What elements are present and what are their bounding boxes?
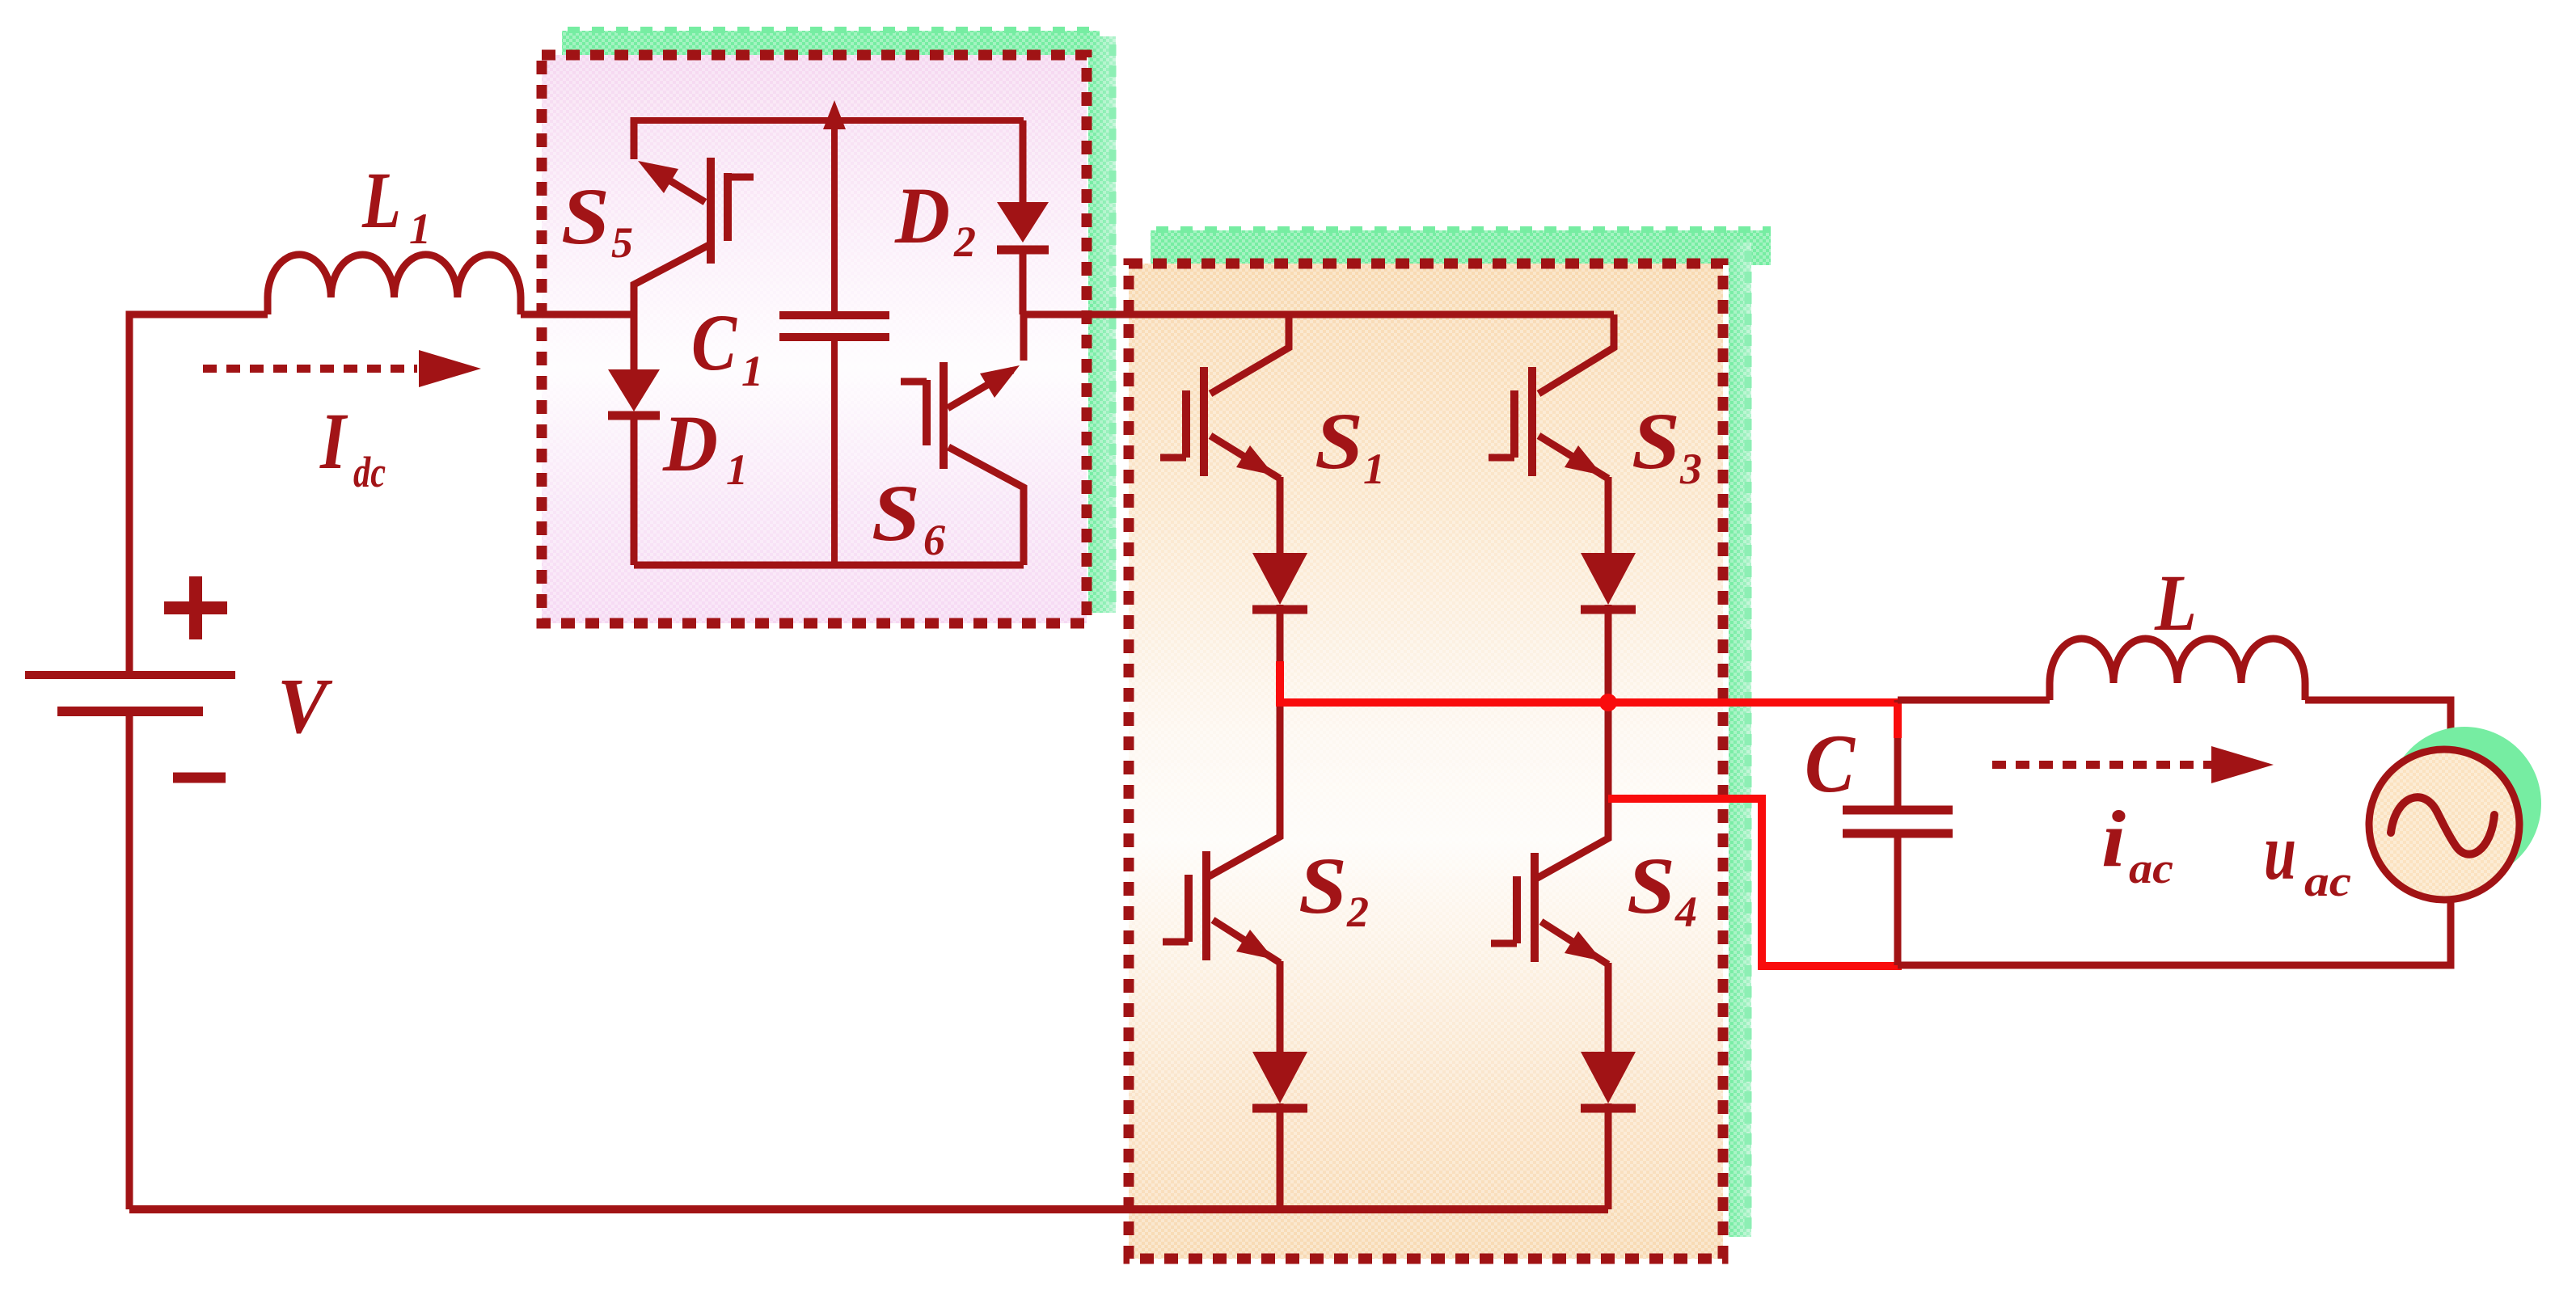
svg-text:I: I xyxy=(319,396,348,486)
svg-text:ac: ac xyxy=(2129,844,2173,892)
wire: pink box output to bridge top rail xyxy=(1024,311,1614,319)
svg-text:D: D xyxy=(662,399,718,488)
battery V plate short xyxy=(57,707,203,716)
svg-text:2: 2 xyxy=(1346,888,1369,936)
green band right of orange box xyxy=(1729,243,1751,1237)
svg-text:1: 1 xyxy=(726,445,748,494)
battery V plate long xyxy=(25,671,235,679)
svg-text:u: u xyxy=(2264,807,2296,897)
svg-text:C: C xyxy=(691,297,737,387)
diode below S4 xyxy=(1581,1052,1636,1209)
diode below S3 xyxy=(1581,553,1636,702)
transistor S3 xyxy=(1489,314,1614,553)
svg-text:V: V xyxy=(277,663,333,749)
svg-text:S: S xyxy=(872,468,920,558)
svg-text:D: D xyxy=(894,171,950,260)
diode below S1 xyxy=(1252,553,1307,663)
wire: battery negative down to bottom rail xyxy=(126,716,133,1209)
inductor L xyxy=(2050,639,2305,700)
diode D1 xyxy=(608,314,660,565)
svg-text:1: 1 xyxy=(409,205,431,253)
transistor S2 xyxy=(1163,706,1280,1052)
svg-text:L: L xyxy=(2154,558,2197,648)
svg-text:1: 1 xyxy=(741,347,763,395)
current arrow iac xyxy=(1992,761,2211,769)
green band above orange box xyxy=(1151,230,1771,265)
svg-text:S: S xyxy=(1299,841,1347,930)
svg-text:2: 2 xyxy=(953,217,976,266)
green band right of pink box xyxy=(1088,36,1116,613)
transistor S6 xyxy=(901,314,1024,565)
svg-text:S: S xyxy=(1632,396,1680,486)
svg-text:4: 4 xyxy=(1674,888,1697,936)
current arrow Idc xyxy=(203,365,417,373)
svg-text:L: L xyxy=(361,155,401,245)
AC source green shadow xyxy=(2388,727,2541,880)
capacitor C1 xyxy=(779,315,889,337)
svg-text:S: S xyxy=(1315,396,1363,486)
svg-text:1: 1 xyxy=(1363,445,1385,493)
wire: L to AC source xyxy=(2305,700,2451,749)
svg-text:C: C xyxy=(1805,718,1856,810)
pink box top rail xyxy=(634,117,1024,124)
wire: capacitor to inductor L xyxy=(1898,697,2050,704)
svg-text:5: 5 xyxy=(611,218,633,267)
svg-text:S: S xyxy=(1627,841,1675,930)
node: S1 emitter stub (bright red) xyxy=(1276,661,1284,703)
svg-text:i: i xyxy=(2101,794,2126,884)
bottom rail right: capacitor to AC source xyxy=(1898,900,2451,965)
minus sign xyxy=(173,773,226,783)
diode D2 xyxy=(997,120,1049,314)
inductor L1 xyxy=(268,255,521,314)
orange dashed box (H-bridge) xyxy=(1129,264,1723,1259)
capacitor C xyxy=(1843,700,1953,965)
pink dashed box (buck-boost cell) xyxy=(542,55,1087,623)
sine wave xyxy=(2391,797,2494,854)
svg-text:dc: dc xyxy=(353,448,386,496)
svg-text:ac: ac xyxy=(2304,857,2351,905)
transistor S4 xyxy=(1491,803,1608,1052)
transistor S1 xyxy=(1160,314,1289,553)
junction dot on wire A xyxy=(1599,694,1617,711)
S3 leg through output node down to S4 xyxy=(1605,702,1612,803)
diode below S2 xyxy=(1252,1052,1307,1209)
green band above pink box xyxy=(562,31,1100,57)
wire A: bridge left midpoint to capacitor C (bright red) xyxy=(1276,698,1902,707)
svg-text:3: 3 xyxy=(1679,445,1702,493)
svg-text:6: 6 xyxy=(923,516,945,564)
node arrow up on C1 branch xyxy=(831,128,838,315)
wire B: S3/S4 midpoint to capacitor bottom (bright red) xyxy=(1608,799,1902,966)
wire: battery positive to inductor L1 xyxy=(129,314,268,671)
AC source uac xyxy=(2369,749,2519,900)
svg-text:S: S xyxy=(561,171,610,261)
plus sign xyxy=(164,576,227,639)
wire: L1 to pink box input node xyxy=(521,311,634,319)
bottom rail xyxy=(129,1205,1608,1213)
pink box bottom rail xyxy=(634,562,1024,569)
transistor S5 xyxy=(634,117,754,314)
